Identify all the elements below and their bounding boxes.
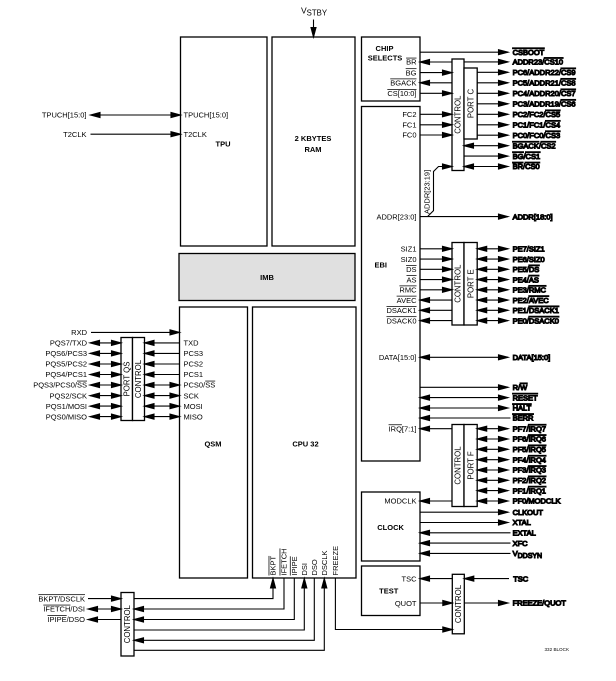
svg-text:PQS0/MISO: PQS0/MISO bbox=[46, 412, 87, 421]
block PORT F bbox=[464, 425, 477, 507]
svg-text:AVEC: AVEC bbox=[397, 296, 417, 305]
net PF7/IRQ7: external pin row (bidirectional) bbox=[477, 424, 546, 433]
svg-text:VSTBY: VSTBY bbox=[301, 6, 328, 18]
label PORT F vertical bbox=[466, 451, 475, 480]
label CLOCK bbox=[377, 523, 404, 532]
pin label PCS0/SS internal bbox=[184, 381, 216, 390]
net HALT: bidirectional bbox=[420, 404, 532, 413]
pin label MISO internal bbox=[184, 412, 203, 421]
svg-text:MISO: MISO bbox=[184, 412, 203, 421]
label TPU bbox=[216, 140, 231, 149]
wire AS: EBI to port E control bbox=[420, 277, 452, 282]
wire PCS2: QS control to QSM bbox=[145, 362, 180, 367]
wire FREEZE: CPU32 pin to test control bbox=[335, 579, 452, 633]
svg-text:PF0/MODCLK: PF0/MODCLK bbox=[513, 497, 561, 506]
svg-text:PF3/IRQ3: PF3/IRQ3 bbox=[513, 466, 546, 475]
svg-text:DSCLK: DSCLK bbox=[320, 550, 329, 575]
svg-text:CONTROL: CONTROL bbox=[454, 95, 463, 134]
block CONTROL (port F) bbox=[452, 425, 464, 507]
block CONTROL (port E) bbox=[452, 243, 464, 326]
block QSM bbox=[180, 307, 248, 578]
block CONTROL (port QS) bbox=[133, 338, 145, 421]
pin label MODCLK internal bbox=[384, 497, 416, 506]
svg-text:SIZ0: SIZ0 bbox=[401, 255, 417, 264]
pin label PQS7/TXD bbox=[50, 339, 88, 348]
pin label PCS3 internal bbox=[184, 349, 204, 358]
svg-text:PQS3/PCS0/SS: PQS3/PCS0/SS bbox=[33, 381, 87, 390]
svg-text:QUOT: QUOT bbox=[395, 599, 417, 608]
svg-text:PQS1/MOSI: PQS1/MOSI bbox=[46, 402, 87, 411]
net PF4/IRQ4: external pin row (bidirectional) bbox=[477, 455, 546, 464]
net PE2/AVEC: external pin row (bidirectional) bbox=[477, 296, 549, 305]
net PQS7/TXD: pad wire to PORT QS (bidirectional) bbox=[90, 340, 121, 345]
pin label PQS0/MISO bbox=[46, 412, 87, 421]
svg-text:AS: AS bbox=[406, 275, 416, 284]
pin label BKPT/DSCLK bbox=[38, 594, 85, 603]
net VSTBY: supply pin into RAM bbox=[311, 20, 316, 38]
pin label TSC internal bbox=[402, 575, 418, 584]
svg-text:TPUCH[15:0]: TPUCH[15:0] bbox=[184, 111, 229, 120]
net PC6/ADDR22/CS9: external pin row bbox=[477, 68, 575, 77]
net BKPT/DSCLK: input to BDM control bbox=[88, 596, 121, 601]
svg-text:TSC: TSC bbox=[402, 575, 418, 584]
net BG: wire CHIP SELECTS to control (output) bbox=[420, 70, 452, 75]
svg-text:PF6/IRQ6: PF6/IRQ6 bbox=[513, 435, 546, 444]
label TPU pin T2CLK internal bbox=[184, 130, 207, 139]
pin label PQS2/SCK bbox=[49, 391, 87, 400]
pin label VSTBY bbox=[301, 6, 328, 18]
net RESET: bidirectional bbox=[420, 393, 538, 402]
pin label FC2 FC1 FC0 internal bbox=[402, 110, 416, 140]
svg-text:CS[10:0]: CS[10:0] bbox=[387, 89, 416, 98]
label CONTROL (BDM) vertical bbox=[123, 604, 132, 643]
svg-text:PORT QS: PORT QS bbox=[122, 362, 131, 397]
svg-text:ADDR[23:19]: ADDR[23:19] bbox=[423, 170, 432, 214]
net PE1/DSACK1: external pin row (bidirectional) bbox=[477, 306, 559, 315]
wire MISO: QS control to QSM bbox=[145, 414, 180, 419]
svg-text:PF1/IRQ1: PF1/IRQ1 bbox=[513, 486, 546, 495]
net VDDSYN: synthesizer supply input bbox=[420, 549, 542, 560]
svg-text:TEST: TEST bbox=[379, 586, 399, 595]
svg-text:PQS2/SCK: PQS2/SCK bbox=[49, 391, 87, 400]
pin label SIZ1 internal bbox=[401, 245, 417, 254]
svg-text:PCS0/SS: PCS0/SS bbox=[184, 381, 216, 390]
net IFETCH/DSI: bidirectional to BDM control bbox=[88, 607, 121, 612]
pin label IPIPE vertical bbox=[290, 556, 299, 575]
pin label T2CLK bbox=[63, 130, 86, 139]
svg-text:CSBOOT: CSBOOT bbox=[513, 48, 545, 57]
label EBI bbox=[375, 261, 388, 270]
pin label DSI vertical bbox=[300, 563, 309, 576]
wire DSACK1: EBI to port E control bbox=[420, 308, 452, 313]
svg-text:PF7/IRQ7: PF7/IRQ7 bbox=[513, 424, 546, 433]
svg-text:IMB: IMB bbox=[260, 273, 274, 282]
block PORT C bbox=[464, 68, 477, 139]
net ADDR[18:0]: address bus output bbox=[420, 212, 553, 221]
wire DSACK0: EBI to port E control bbox=[420, 318, 452, 323]
pin label DSO vertical bbox=[310, 559, 319, 575]
svg-text:BG: BG bbox=[406, 68, 417, 77]
net EXTAL: crystal input bbox=[420, 529, 536, 538]
svg-text:PQS6/PCS3: PQS6/PCS3 bbox=[45, 349, 87, 358]
net CS[10:0]: wire CHIP SELECTS to control bbox=[420, 91, 452, 96]
net FC0: wire EBI to port C control bbox=[420, 133, 452, 138]
wire DSO: BDM control to CPU32 pin bbox=[134, 579, 314, 643]
pin label RMC internal bbox=[399, 286, 417, 295]
wire RMC: EBI to port E control bbox=[420, 287, 452, 292]
pin label BKPT vertical bbox=[269, 555, 278, 575]
bus label ADDR[23:19] vertical bbox=[423, 170, 432, 214]
pin label TXD internal bbox=[184, 339, 200, 348]
net CLKOUT: clock output bbox=[420, 508, 543, 517]
wire IPIPE: BDM control to CPU32 pin bbox=[134, 579, 294, 623]
svg-text:DATA[15:0]: DATA[15:0] bbox=[513, 353, 551, 362]
svg-text:PF5/IRQ5: PF5/IRQ5 bbox=[513, 445, 546, 454]
svg-text:PQS7/TXD: PQS7/TXD bbox=[50, 339, 88, 348]
net PF5/IRQ5: external pin row (bidirectional) bbox=[477, 445, 546, 454]
net TSC: external input pin bbox=[464, 574, 528, 583]
net PC0/FC0/CS3: external pin row bbox=[477, 131, 560, 140]
pin label RXD bbox=[71, 328, 87, 337]
svg-text:FC1: FC1 bbox=[402, 121, 416, 130]
net PF6/IRQ6: external pin row (bidirectional) bbox=[477, 435, 546, 444]
svg-text:PE2/AVEC: PE2/AVEC bbox=[513, 296, 550, 305]
pin label AS internal bbox=[406, 275, 416, 284]
svg-text:CONTROL: CONTROL bbox=[454, 446, 463, 485]
net PE3/RMC: external pin row (bidirectional) bbox=[477, 286, 546, 295]
svg-text:CLOCK: CLOCK bbox=[377, 523, 404, 532]
wire IRQ[7:1]: port F control to EBI bbox=[420, 426, 452, 431]
pin label BR internal bbox=[406, 58, 417, 67]
net PQS5/PCS2: pad wire to PORT QS (bidirectional) bbox=[90, 362, 121, 367]
net PF0/MODCLK: external pin row (bidirectional) bbox=[477, 497, 560, 506]
pin label TPUCH[15:0] bbox=[42, 111, 87, 120]
svg-text:BR/CS0: BR/CS0 bbox=[513, 162, 540, 171]
label PORT QS vertical bbox=[122, 362, 131, 397]
net BERR: input to EBI bbox=[420, 414, 534, 423]
svg-text:HALT: HALT bbox=[513, 404, 532, 413]
net BR: wire control to CHIP SELECTS (input) bbox=[420, 60, 452, 65]
label CPU 32 bbox=[292, 440, 318, 449]
net PQS2/SCK: pad wire to PORT QS (bidirectional) bbox=[90, 393, 121, 398]
wire SIZ0: EBI to port E control bbox=[420, 257, 452, 262]
label CONTROL (test) vertical bbox=[454, 584, 463, 623]
bus IMB bbox=[179, 254, 355, 301]
net TPUCH[15:0]: bidirectional wire to TPU bbox=[91, 113, 181, 118]
pin label PQS4/PCS1 bbox=[45, 370, 87, 379]
svg-text:RMC: RMC bbox=[399, 286, 417, 295]
svg-text:FREEZE: FREEZE bbox=[331, 546, 340, 576]
net PQS3/PCS0/SS: pad wire to PORT QS (bidirectional) bbox=[90, 383, 121, 388]
svg-text:BGACK: BGACK bbox=[390, 79, 416, 88]
svg-text:PCS1: PCS1 bbox=[184, 370, 204, 379]
pin label PQS3/PCS0/SS bbox=[33, 381, 87, 390]
svg-text:PQS5/PCS2: PQS5/PCS2 bbox=[45, 360, 87, 369]
svg-text:DSO: DSO bbox=[310, 559, 319, 575]
pin label FREEZE vertical bbox=[331, 546, 340, 576]
svg-text:PC4/ADDR20/CS7: PC4/ADDR20/CS7 bbox=[513, 89, 576, 98]
net IPIPE/DSO: output from BDM control bbox=[88, 617, 121, 622]
block PORT E bbox=[464, 243, 477, 326]
svg-text:VDDSYN: VDDSYN bbox=[513, 549, 543, 560]
block TPU bbox=[181, 37, 268, 246]
net FREEZE/QUOT: external output pin bbox=[464, 599, 566, 608]
svg-text:XTAL: XTAL bbox=[513, 518, 531, 527]
net CSBOOT: external pin row bbox=[420, 48, 545, 57]
net PQS1/MOSI: pad wire to PORT QS (bidirectional) bbox=[90, 404, 121, 409]
label PORT C vertical bbox=[466, 89, 475, 119]
pin label DS internal bbox=[406, 265, 416, 274]
wire SCK: QS control to QSM bbox=[145, 393, 180, 398]
wire DSCLK: BDM control to CPU32 pin bbox=[134, 579, 327, 651]
pin label IFETCH vertical bbox=[280, 548, 289, 575]
svg-text:PE6/SIZ0: PE6/SIZ0 bbox=[513, 255, 545, 264]
label CONTROL (port C) vertical bbox=[454, 95, 463, 134]
label CONTROL (port QS) vertical bbox=[134, 359, 143, 398]
wire SIZ1: EBI to port E control bbox=[420, 246, 452, 251]
label QSM bbox=[204, 440, 221, 449]
wire DS: EBI to port E control bbox=[420, 267, 452, 272]
block EBI bbox=[362, 107, 421, 462]
svg-text:R/W: R/W bbox=[513, 383, 529, 392]
net ADDR[23:19]: branch from ADDR bus up to port C control bbox=[428, 164, 453, 217]
wire MOSI: QS control to QSM bbox=[145, 404, 180, 409]
net XTAL: crystal output bbox=[420, 518, 531, 527]
svg-text:PC2/FC2/CS5: PC2/FC2/CS5 bbox=[513, 110, 561, 119]
wire MODCLK: port F control to CLOCK bbox=[420, 499, 452, 504]
net PE6/SIZ0: external pin row (bidirectional) bbox=[477, 255, 545, 264]
svg-text:CLKOUT: CLKOUT bbox=[513, 508, 544, 517]
svg-text:CONTROL: CONTROL bbox=[454, 584, 463, 623]
label PORT E vertical bbox=[466, 269, 475, 298]
svg-text:RESET: RESET bbox=[513, 393, 538, 402]
block CONTROL (test) bbox=[452, 574, 464, 634]
label CHIP SELECTS bbox=[368, 44, 403, 63]
net XFC: filter cap input bbox=[420, 539, 528, 548]
svg-text:EBI: EBI bbox=[375, 261, 388, 270]
svg-text:QSM: QSM bbox=[204, 440, 221, 449]
net PF2/IRQ2: external pin row (bidirectional) bbox=[477, 476, 546, 485]
label TEST bbox=[379, 586, 399, 595]
svg-text:MODCLK: MODCLK bbox=[384, 497, 416, 506]
net PQS6/PCS3: pad wire to PORT QS (bidirectional) bbox=[90, 351, 121, 356]
bus label IRQ[7:1] internal bbox=[389, 424, 417, 433]
svg-text:FREEZE/QUOT: FREEZE/QUOT bbox=[513, 599, 567, 608]
block TEST bbox=[362, 566, 421, 616]
svg-text:TPU: TPU bbox=[216, 140, 231, 149]
wire TSC: test control to TEST block bbox=[420, 576, 452, 581]
svg-text:PE3/RMC: PE3/RMC bbox=[513, 286, 547, 295]
net FC2: wire EBI to port C control bbox=[420, 112, 452, 117]
block RAM (2 Kbytes) bbox=[272, 37, 355, 246]
caption 332 BLOCK bbox=[545, 647, 570, 652]
pin label PQS5/PCS2 bbox=[45, 360, 87, 369]
svg-text:PORT F: PORT F bbox=[466, 451, 475, 480]
block CONTROL (BDM/debug) bbox=[121, 593, 134, 657]
pin label IPIPE/DSO bbox=[47, 615, 85, 624]
svg-text:DS: DS bbox=[406, 265, 416, 274]
svg-text:EXTAL: EXTAL bbox=[513, 529, 536, 538]
label IMB bbox=[260, 273, 274, 282]
pin label DSCLK vertical bbox=[320, 550, 329, 575]
pin label MOSI internal bbox=[184, 402, 203, 411]
wire PCS0/SS: QS control to QSM bbox=[145, 383, 180, 388]
pin label CS[10:0] internal bbox=[387, 89, 416, 98]
svg-text:SCK: SCK bbox=[184, 391, 199, 400]
net FC1: wire EBI to port C control bbox=[420, 122, 452, 127]
svg-text:PF4/IRQ4: PF4/IRQ4 bbox=[513, 455, 546, 464]
pin label AVEC internal bbox=[397, 296, 417, 305]
svg-text:ADDR[23:0]: ADDR[23:0] bbox=[376, 212, 416, 221]
svg-text:CHIP: CHIP bbox=[376, 44, 394, 53]
svg-text:332 BLOCK: 332 BLOCK bbox=[545, 647, 570, 652]
label 2 KBYTES RAM bbox=[295, 134, 332, 154]
wire BKPT: BDM control to CPU32 pin bbox=[134, 579, 276, 599]
net RXD: input wire to QSM bbox=[91, 330, 180, 335]
net PE5/DS: external pin row (bidirectional) bbox=[477, 265, 539, 274]
net PF3/IRQ3: external pin row (bidirectional) bbox=[477, 466, 546, 475]
svg-text:T2CLK: T2CLK bbox=[63, 130, 86, 139]
wire TXD: QS control to QSM bbox=[145, 340, 180, 345]
pin label SIZ0 internal bbox=[401, 255, 417, 264]
label CONTROL (port E) vertical bbox=[454, 264, 463, 303]
svg-text:CONTROL: CONTROL bbox=[123, 604, 132, 643]
pin label DSACK0 internal bbox=[386, 316, 416, 325]
svg-text:FC2: FC2 bbox=[402, 110, 416, 119]
net BG/CS1: external pin row bbox=[464, 152, 540, 161]
svg-text:PORT E: PORT E bbox=[466, 269, 475, 298]
net PE4/AS: external pin row (bidirectional) bbox=[477, 275, 539, 284]
net PQS0/MISO: pad wire to PORT QS (bidirectional) bbox=[90, 414, 121, 419]
svg-text:T2CLK: T2CLK bbox=[184, 130, 207, 139]
net PQS4/PCS1: pad wire to PORT QS (bidirectional) bbox=[90, 372, 121, 377]
svg-text:SIZ1: SIZ1 bbox=[401, 245, 417, 254]
net PC1/FC1/CS4: external pin row bbox=[477, 121, 560, 130]
net PF1/IRQ1: external pin row (bidirectional) bbox=[477, 486, 546, 495]
svg-text:TPUCH[15:0]: TPUCH[15:0] bbox=[42, 111, 87, 120]
block CHIP SELECTS bbox=[362, 37, 421, 101]
svg-text:XFC: XFC bbox=[513, 539, 529, 548]
wire QUOT: TEST block to control bbox=[420, 601, 452, 606]
svg-text:2 KBYTES: 2 KBYTES bbox=[295, 134, 332, 143]
net DATA[15:0]: data bus bidirectional bbox=[420, 353, 550, 362]
pin label SCK internal bbox=[184, 391, 199, 400]
svg-text:ADDR23/CS10: ADDR23/CS10 bbox=[513, 58, 563, 67]
svg-text:DSACK0: DSACK0 bbox=[386, 316, 416, 325]
pin label IFETCH/DSI bbox=[43, 605, 85, 614]
net R/W: read-write output bbox=[420, 383, 528, 392]
net BGACK/CS2: external pin row bbox=[464, 141, 556, 150]
pin label PCS2 internal bbox=[184, 360, 204, 369]
svg-text:PE7/SIZ1: PE7/SIZ1 bbox=[513, 245, 545, 254]
svg-text:BR: BR bbox=[406, 58, 417, 67]
net PC3/ADDR19/CS6: external pin row bbox=[477, 100, 575, 109]
svg-text:ADDR[18:0]: ADDR[18:0] bbox=[513, 212, 553, 221]
net PC2/FC2/CS5: external pin row bbox=[477, 110, 560, 119]
block PORT QS bbox=[121, 338, 133, 421]
svg-text:PCS3: PCS3 bbox=[184, 349, 204, 358]
svg-text:BERR: BERR bbox=[513, 414, 534, 423]
net T2CLK: input wire to TPU bbox=[91, 132, 181, 137]
svg-text:PC3/ADDR19/CS6: PC3/ADDR19/CS6 bbox=[513, 100, 576, 109]
svg-text:CPU 32: CPU 32 bbox=[292, 440, 318, 449]
net PC4/ADDR20/CS7: external pin row bbox=[477, 89, 575, 98]
label TPU pin TPUCH[15:0] internal bbox=[184, 111, 229, 120]
wire AVEC: EBI to port E control bbox=[420, 298, 452, 303]
svg-text:PE0/DSACK0: PE0/DSACK0 bbox=[513, 316, 559, 325]
wire DSI: BDM control to CPU32 pin bbox=[134, 579, 307, 631]
pin label PQS6/PCS3 bbox=[45, 349, 87, 358]
svg-text:FC0: FC0 bbox=[402, 131, 416, 140]
svg-text:IFETCH/DSI: IFETCH/DSI bbox=[43, 605, 85, 614]
pin label BGACK internal bbox=[390, 79, 416, 88]
pin label DSACK1 internal bbox=[386, 306, 416, 315]
svg-text:DSI: DSI bbox=[300, 563, 309, 576]
svg-text:DATA[15:0]: DATA[15:0] bbox=[379, 353, 417, 362]
block CONTROL (port C) bbox=[452, 59, 464, 171]
svg-text:IFETCH: IFETCH bbox=[280, 548, 289, 575]
net BR/CS0: external pin row bbox=[464, 162, 540, 171]
block CPU32 bbox=[253, 307, 357, 578]
svg-text:IPIPE/DSO: IPIPE/DSO bbox=[47, 615, 85, 624]
bus label DATA[15:0] internal bbox=[379, 353, 417, 362]
wire PCS3: QS control to QSM bbox=[145, 351, 180, 356]
wire IFETCH: BDM control to CPU32 pin bbox=[134, 579, 284, 612]
svg-text:CONTROL: CONTROL bbox=[454, 264, 463, 303]
svg-text:PC6/ADDR22/CS9: PC6/ADDR22/CS9 bbox=[513, 68, 576, 77]
svg-text:RXD: RXD bbox=[71, 328, 87, 337]
svg-text:TSC: TSC bbox=[513, 574, 529, 583]
svg-text:PC5/ADDR21/CS8: PC5/ADDR21/CS8 bbox=[513, 79, 576, 88]
svg-text:PC1/FC1/CS4: PC1/FC1/CS4 bbox=[513, 121, 561, 130]
net PE0/DSACK0: external pin row (bidirectional) bbox=[477, 316, 559, 325]
label CONTROL (port F) vertical bbox=[454, 446, 463, 485]
svg-text:PORT C: PORT C bbox=[466, 89, 475, 119]
pin label BG internal bbox=[406, 68, 417, 77]
svg-text:IPIPE: IPIPE bbox=[290, 556, 299, 575]
svg-text:PE1/DSACK1: PE1/DSACK1 bbox=[513, 306, 559, 315]
svg-text:DSACK1: DSACK1 bbox=[386, 306, 416, 315]
pin label PQS1/MOSI bbox=[46, 402, 87, 411]
svg-text:PE5/DS: PE5/DS bbox=[513, 265, 540, 274]
pin label QUOT internal bbox=[395, 599, 417, 608]
pin label PCS1 internal bbox=[184, 370, 204, 379]
svg-text:MOSI: MOSI bbox=[184, 402, 203, 411]
svg-text:RAM: RAM bbox=[304, 145, 321, 154]
svg-text:PCS2: PCS2 bbox=[184, 360, 204, 369]
net BGACK: wire control to CHIP SELECTS (input) bbox=[420, 80, 452, 85]
bus label ADDR[23:0] internal bbox=[376, 212, 416, 221]
net ADDR23/CS10: external pin row bbox=[464, 58, 563, 67]
svg-text:BKPT: BKPT bbox=[269, 555, 278, 575]
svg-text:BG/CS1: BG/CS1 bbox=[513, 152, 541, 161]
block CLOCK bbox=[362, 492, 421, 561]
wire PCS1: QS control to QSM bbox=[145, 372, 180, 377]
svg-text:BKPT/DSCLK: BKPT/DSCLK bbox=[38, 594, 85, 603]
net PC5/ADDR21/CS8: external pin row bbox=[477, 79, 575, 88]
svg-text:PC0/FC0/CS3: PC0/FC0/CS3 bbox=[513, 131, 561, 140]
svg-text:BGACK/CS2: BGACK/CS2 bbox=[513, 141, 556, 150]
svg-text:PF2/IRQ2: PF2/IRQ2 bbox=[513, 476, 546, 485]
svg-text:SELECTS: SELECTS bbox=[368, 54, 403, 63]
svg-text:CONTROL: CONTROL bbox=[134, 359, 143, 398]
net PE7/SIZ1: external pin row (bidirectional) bbox=[477, 245, 545, 254]
svg-text:TXD: TXD bbox=[184, 339, 200, 348]
svg-text:IRQ[7:1]: IRQ[7:1] bbox=[389, 424, 417, 433]
svg-text:PE4/AS: PE4/AS bbox=[513, 275, 539, 284]
svg-text:PQS4/PCS1: PQS4/PCS1 bbox=[45, 370, 87, 379]
